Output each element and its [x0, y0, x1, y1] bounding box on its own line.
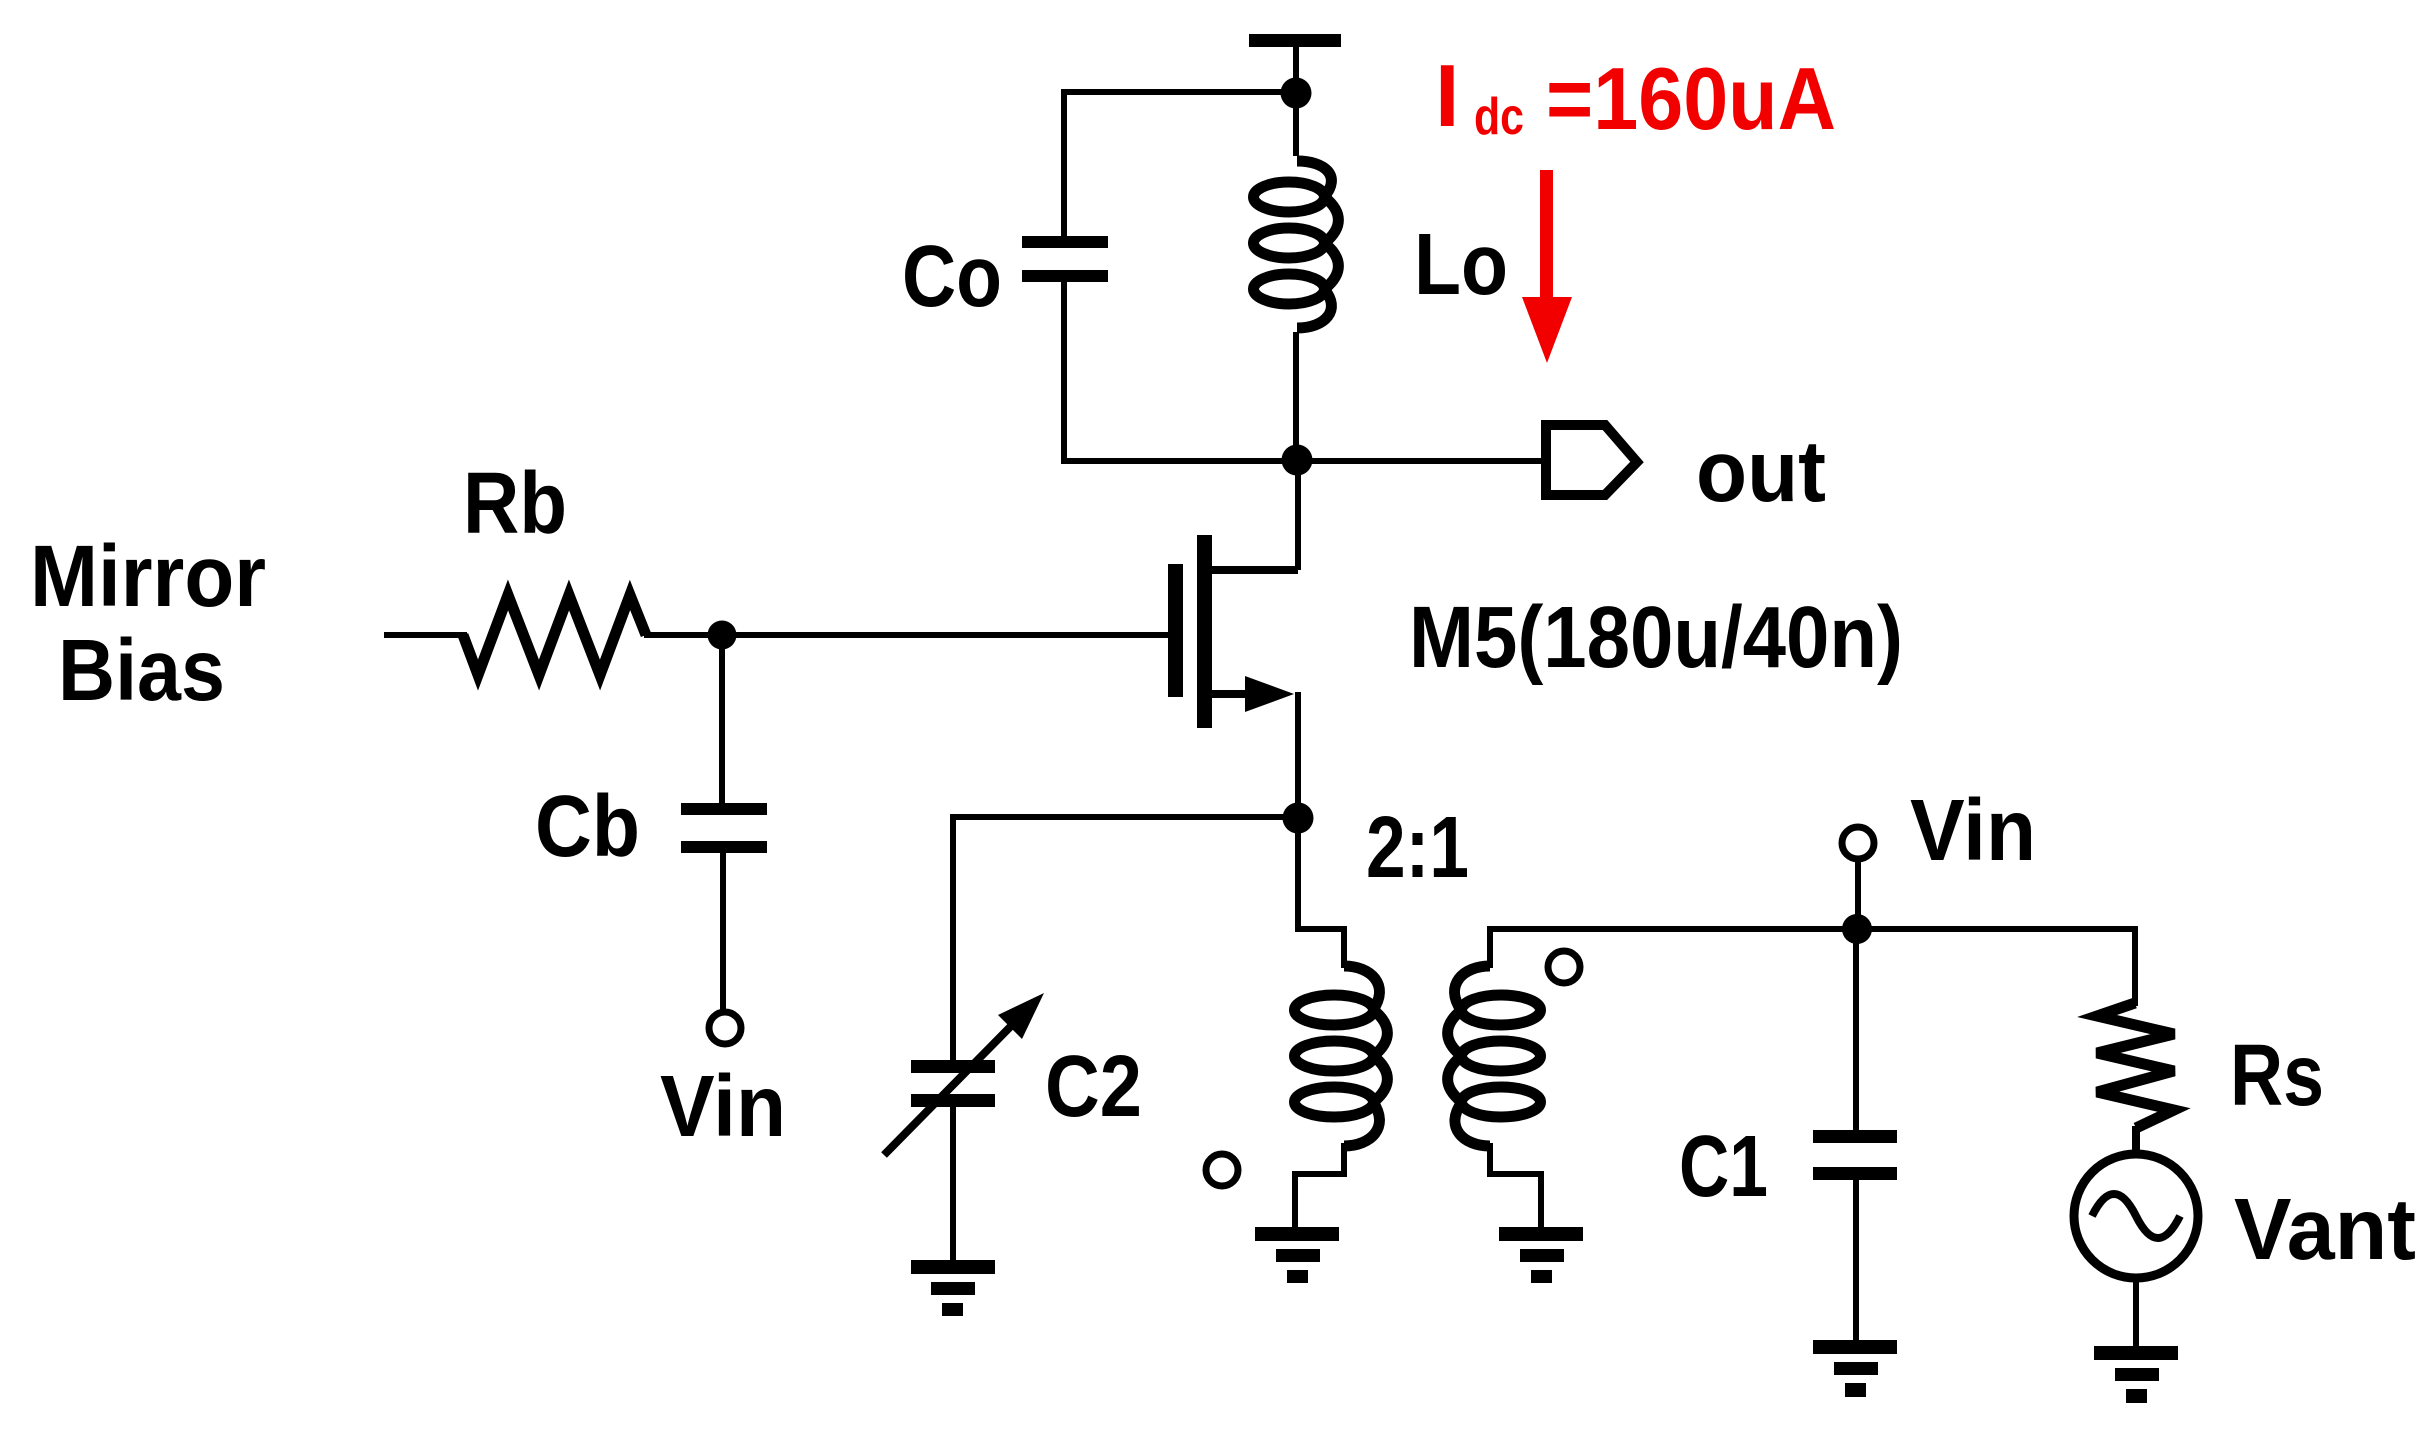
wire Vant bottom vertical	[2133, 1278, 2139, 1348]
svg-text:I: I	[1435, 46, 1459, 145]
svg-text:Vin: Vin	[1910, 782, 2036, 879]
terminal Vin right	[1842, 827, 1874, 859]
capacitor C1	[1813, 1130, 1897, 1180]
ground transformer primary	[1255, 1227, 1339, 1283]
wire Lo bottom vertical	[1293, 332, 1299, 461]
transistor M5	[1168, 535, 1298, 728]
resistor Rs	[2097, 1003, 2174, 1128]
wire top horizontal to Co	[1064, 89, 1296, 95]
node gate junction	[708, 621, 737, 650]
svg-text:Vant: Vant	[2234, 1181, 2416, 1278]
wire Rs top vertical	[2132, 926, 2138, 1006]
wire gate horizontal	[644, 632, 1168, 638]
svg-text:Bias: Bias	[58, 622, 225, 719]
label Mirror Bias	[30, 528, 266, 719]
svg-text:Cb: Cb	[535, 778, 640, 875]
wire C2 top vertical	[950, 814, 956, 1060]
svg-text:Rs: Rs	[2230, 1027, 2324, 1124]
node VDD junction	[1281, 78, 1312, 109]
resistor Rb	[463, 595, 646, 675]
terminal Vin left	[709, 1012, 741, 1044]
varactor C2	[884, 993, 1044, 1155]
wire primary bottom lead	[1295, 1143, 1344, 1229]
svg-text:Lo: Lo	[1414, 216, 1508, 313]
wire C1 bottom vertical	[1853, 1180, 1859, 1342]
svg-text:C1: C1	[1679, 1118, 1768, 1215]
wire drain vertical	[1295, 461, 1301, 570]
node Vin junction	[1842, 914, 1872, 944]
wire Co top vertical	[1061, 89, 1067, 236]
wire Rs to Vant	[2132, 1126, 2140, 1158]
wire bias lead	[384, 632, 467, 638]
svg-text:=160uA: =160uA	[1546, 49, 1836, 148]
capacitor Co	[1022, 236, 1108, 282]
wire source vertical	[1295, 692, 1301, 818]
svg-text:Rb: Rb	[463, 455, 567, 552]
capacitor Cb	[681, 803, 767, 853]
red current arrow	[1522, 170, 1572, 363]
svg-text:2:1: 2:1	[1366, 799, 1469, 896]
wire Lo top vertical	[1293, 93, 1299, 156]
wire Cb top vertical	[719, 635, 725, 803]
transformer primary winding	[1295, 966, 1388, 1146]
svg-text:dc: dc	[1474, 88, 1524, 146]
source Vant	[2074, 1154, 2198, 1278]
port out	[1546, 425, 1637, 495]
node source junction	[1283, 803, 1314, 834]
svg-text:M5(180u/40n): M5(180u/40n)	[1409, 589, 1903, 686]
svg-text:C2: C2	[1045, 1038, 1142, 1135]
transformer secondary winding	[1448, 966, 1541, 1146]
ground Vant	[2094, 1346, 2178, 1403]
ground transformer secondary	[1499, 1227, 1583, 1283]
wire Co bottom vertical	[1061, 282, 1067, 464]
wire C2 bottom vertical	[950, 1107, 956, 1262]
ground C1	[1813, 1340, 1897, 1397]
red label Idc=160uA	[1435, 46, 1836, 148]
wire secondary bottom lead	[1490, 1143, 1541, 1229]
svg-text:Co: Co	[902, 228, 1002, 325]
wire out horizontal	[1064, 458, 1548, 464]
svg-text:Vin: Vin	[660, 1058, 786, 1155]
svg-text:Mirror: Mirror	[30, 528, 266, 625]
ground C2	[911, 1260, 995, 1316]
polarity dot secondary	[1548, 951, 1580, 983]
node out junction	[1282, 445, 1313, 476]
inductor Lo	[1254, 161, 1339, 328]
power rail VDD	[1249, 34, 1341, 93]
wire source horizontal to C2	[953, 814, 1298, 820]
wire C1 top vertical	[1853, 929, 1859, 1130]
wire secondary top lead	[1490, 929, 2135, 968]
wire primary top vertical	[1298, 818, 1344, 968]
wire Cb bottom vertical	[720, 853, 726, 1012]
polarity dot primary	[1206, 1154, 1238, 1186]
wire Vin vertical	[1855, 861, 1861, 929]
svg-text:out: out	[1696, 423, 1826, 520]
